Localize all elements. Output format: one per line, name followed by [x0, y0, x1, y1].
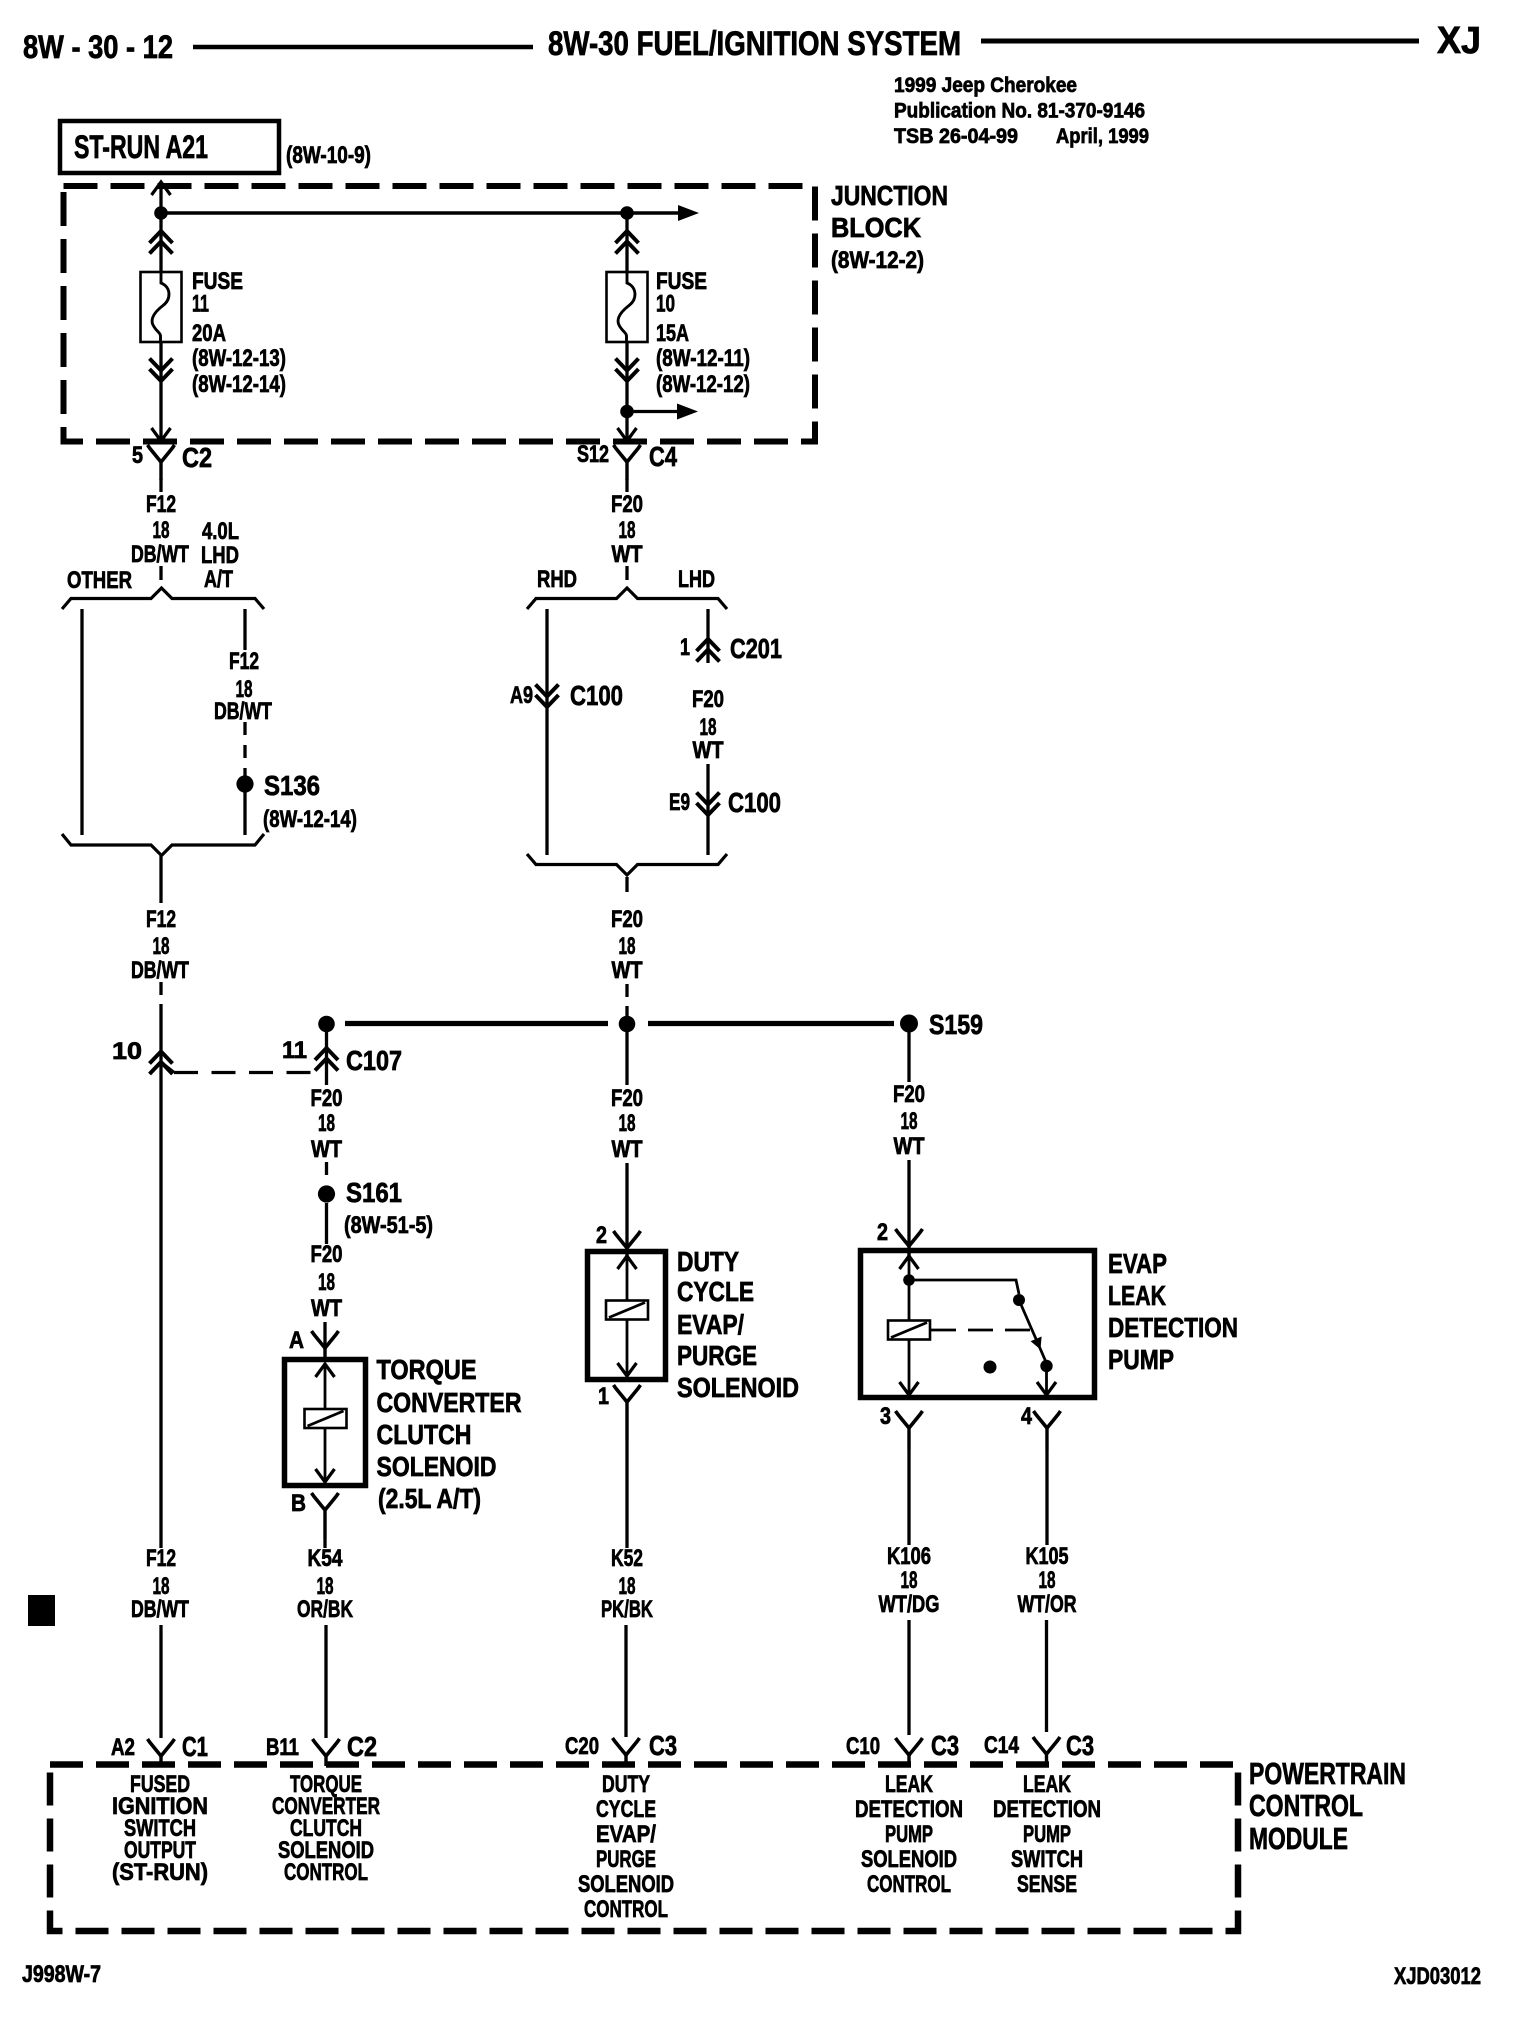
svg-text:OTHER: OTHER	[67, 567, 132, 594]
label: EVAP LEAK DETECTION PUMP	[1108, 1248, 1238, 1375]
merge brace: RHD/LHD rejoin to F20	[527, 854, 727, 875]
svg-text:K105: K105	[1026, 1543, 1069, 1570]
label: LEAK DETECTION PUMP SWITCH SENSE	[993, 1771, 1101, 1898]
wire: TCC pin B down (circuit K54)	[323, 1539, 326, 1548]
pin A9 connector C100 on RHD branch	[510, 682, 559, 709]
label: FUSE 10 15A (8W-12-11) (8W-12-12)	[656, 268, 750, 398]
svg-text:18: 18	[901, 1108, 918, 1135]
svg-text:CONTROL: CONTROL	[284, 1859, 368, 1886]
splice S161	[318, 1185, 335, 1202]
svg-text:3: 3	[880, 1403, 891, 1430]
pin 1 connector C201 on LHD branch	[680, 634, 720, 662]
wire: S159 down to leak detection pump pin 2	[907, 1032, 910, 1082]
svg-text:EVAP: EVAP	[1108, 1248, 1167, 1279]
label: splice S136 (8W-12-14)	[263, 770, 357, 833]
pin 3 of EVAP leak detection pump	[880, 1403, 923, 1450]
svg-text:(8W-10-9): (8W-10-9)	[286, 142, 371, 169]
svg-text:F20: F20	[692, 686, 724, 713]
label: circuit F20 18 WT (LDP)	[893, 1081, 925, 1160]
svg-text:J998W-7: J998W-7	[22, 1961, 101, 1988]
svg-text:BLOCK: BLOCK	[831, 212, 921, 243]
wire: TCC internal lower (arrow down)	[316, 1428, 335, 1482]
svg-text:18: 18	[901, 1567, 918, 1594]
registration mark	[28, 1595, 55, 1626]
svg-text:F20: F20	[893, 1081, 925, 1108]
svg-text:DUTY: DUTY	[677, 1246, 739, 1277]
label: circuit K106 18 WT/DG	[879, 1543, 940, 1618]
component box: EVAP leak detection pump	[861, 1251, 1095, 1398]
wire: OTHER branch	[80, 609, 83, 835]
svg-text:(8W-12-12): (8W-12-12)	[656, 371, 750, 398]
svg-text:WT: WT	[612, 957, 643, 984]
svg-text:K106: K106	[887, 1543, 931, 1570]
wire: junction block bus to fuse 10	[161, 205, 699, 221]
svg-text:18: 18	[153, 517, 170, 544]
svg-text:CLUTCH: CLUTCH	[377, 1419, 472, 1450]
svg-text:S12: S12	[577, 441, 609, 468]
svg-text:18: 18	[153, 933, 170, 960]
svg-text:WT: WT	[612, 1136, 643, 1163]
label: circuit F20 18 WT (LHD)	[692, 686, 724, 764]
wire: coil down to pin 3 (arrow down)	[900, 1339, 919, 1395]
pin 2 of EVAP leak detection pump	[877, 1219, 923, 1256]
svg-text:C10: C10	[846, 1733, 880, 1760]
label: FUSE 11 20A (8W-12-13) (8W-12-14)	[192, 268, 286, 398]
split brace: F20 splits RHD / LHD	[527, 588, 727, 609]
junction block dashed enclosure	[64, 186, 816, 442]
wire: internal link to switch contact	[909, 1280, 1019, 1294]
svg-text:TSB 26-04-99: TSB 26-04-99	[894, 124, 1018, 148]
wire: fuse 11 feed up to ST-RUN A21 (arrow up)	[152, 182, 171, 213]
wire: K54 to PCM	[324, 1625, 327, 1738]
wire: pin 1 down (circuit K52)	[625, 1440, 628, 1548]
svg-text:10: 10	[112, 1038, 142, 1065]
svg-text:TORQUE: TORQUE	[377, 1354, 477, 1385]
wire: bus node down into fuse 10	[625, 213, 628, 272]
pin 1 of duty cycle solenoid	[598, 1383, 641, 1440]
node: bus end left (C107 drop)	[318, 1016, 335, 1033]
svg-text:POWERTRAIN: POWERTRAIN	[1249, 1756, 1406, 1791]
svg-text:C201: C201	[730, 633, 782, 664]
dashed actuation link from coil to switch	[931, 1329, 1030, 1332]
svg-text:(8W-51-5): (8W-51-5)	[344, 1212, 433, 1239]
svg-text:1999 Jeep Cherokee: 1999 Jeep Cherokee	[894, 73, 1077, 97]
svg-text:11: 11	[192, 291, 209, 318]
svg-text:(8W-12-14): (8W-12-14)	[192, 371, 286, 398]
wire: F20 below merge (dashed)	[625, 877, 628, 900]
svg-text:18: 18	[619, 933, 636, 960]
component box: duty cycle EVAP/purge solenoid	[588, 1252, 666, 1380]
svg-text:CONTROL: CONTROL	[584, 1896, 668, 1923]
svg-text:SOLENOID: SOLENOID	[677, 1372, 799, 1403]
svg-text:WT/OR: WT/OR	[1018, 1591, 1077, 1618]
pin 2 of duty cycle solenoid	[596, 1222, 641, 1258]
svg-text:EVAP/: EVAP/	[596, 1821, 656, 1848]
svg-text:April, 1999: April, 1999	[1056, 124, 1149, 148]
svg-text:C3: C3	[931, 1730, 959, 1761]
svg-text:WT/DG: WT/DG	[879, 1591, 940, 1618]
split brace: F12 splits OTHER / 4.0L LHD A/T	[62, 588, 264, 609]
label: circuit F20 18 WT	[611, 491, 643, 568]
wire: RHD branch	[545, 609, 548, 855]
wire: K106 to PCM	[907, 1620, 910, 1735]
merge brace: branches rejoin to F12	[62, 834, 264, 856]
svg-text:11: 11	[282, 1037, 307, 1064]
svg-text:OR/BK: OR/BK	[297, 1596, 353, 1623]
node: stray contact dot	[984, 1361, 997, 1374]
label: 4.0L LHD A/T branch	[201, 518, 239, 593]
label: splice S161 (8W-51-5)	[344, 1177, 433, 1239]
wire: TCC internal (arrow up)	[316, 1364, 335, 1409]
wire: S161 down to torque converter clutch solenoid	[325, 1203, 328, 1244]
wire: F20 to splice S159 bus	[625, 984, 628, 1018]
svg-text:ST-RUN A21: ST-RUN A21	[74, 129, 208, 165]
svg-text:F20: F20	[611, 1085, 643, 1112]
svg-text:EVAP/: EVAP/	[677, 1309, 744, 1340]
label: circuit K52 18 PK/BK	[601, 1545, 653, 1623]
svg-text:CYCLE: CYCLE	[677, 1276, 754, 1307]
splice S159 node	[900, 1015, 918, 1033]
svg-text:10: 10	[656, 291, 675, 318]
svg-text:18: 18	[619, 1110, 636, 1137]
svg-text:B11: B11	[266, 1734, 299, 1761]
svg-text:B: B	[291, 1490, 306, 1517]
node: bus tap above fuse 10	[620, 206, 634, 220]
label: circuit K54 18 OR/BK	[297, 1545, 353, 1623]
svg-text:8W-30 FUEL/IGNITION SYSTEM: 8W-30 FUEL/IGNITION SYSTEM	[548, 25, 961, 63]
label: circuit K105 18 WT/OR	[1018, 1543, 1077, 1618]
wire: pin 4 down (circuit K105)	[1045, 1450, 1048, 1545]
node: bus middle (duty cycle drop)	[619, 1016, 636, 1033]
powertrain control module dashed enclosure	[50, 1765, 1238, 1932]
svg-text:F12: F12	[146, 1545, 176, 1572]
svg-text:C4: C4	[649, 441, 677, 472]
wire: bus down to C107	[325, 1028, 328, 1085]
pin B of TCC solenoid	[291, 1490, 339, 1539]
wire: bus node down into fuse 11	[159, 213, 162, 272]
node: splice at fuse 11 feed	[154, 206, 168, 220]
svg-text:JUNCTION: JUNCTION	[831, 180, 948, 211]
wire: branch arrow right inside junction block	[627, 404, 698, 420]
svg-text:F20: F20	[311, 1241, 343, 1268]
node: switch lower contact	[1040, 1360, 1052, 1372]
svg-text:DETECTION: DETECTION	[855, 1796, 963, 1823]
fuse F11	[141, 272, 182, 342]
svg-text:2: 2	[877, 1219, 888, 1246]
svg-text:CONTROL: CONTROL	[867, 1871, 951, 1898]
svg-text:C20: C20	[565, 1733, 599, 1760]
svg-text:(ST-RUN): (ST-RUN)	[112, 1859, 208, 1886]
label: circuit F12 18 DB/WT (to PCM)	[131, 1545, 189, 1623]
svg-text:F20: F20	[611, 491, 643, 518]
svg-text:DB/WT: DB/WT	[131, 1596, 189, 1623]
svg-text:K54: K54	[308, 1545, 344, 1572]
svg-text:1: 1	[680, 634, 690, 661]
svg-text:DB/WT: DB/WT	[131, 541, 189, 568]
svg-text:A9: A9	[510, 682, 533, 709]
svg-text:C1: C1	[182, 1731, 208, 1762]
svg-text:C3: C3	[649, 1730, 677, 1761]
label: circuit F20 18 WT (C107)	[311, 1085, 343, 1163]
svg-text:F20: F20	[611, 906, 643, 933]
svg-text:F12: F12	[146, 491, 176, 518]
svg-text:WT: WT	[311, 1295, 342, 1322]
solenoid coil symbol (pump)	[888, 1321, 930, 1340]
wire: down to pin 2	[625, 1163, 628, 1248]
svg-text:SOLENOID: SOLENOID	[377, 1451, 497, 1482]
header rule left	[193, 45, 533, 50]
svg-text:SENSE: SENSE	[1017, 1871, 1077, 1898]
wire: F12 main run below merge	[159, 855, 162, 903]
svg-text:C100: C100	[728, 787, 781, 818]
svg-text:(8W-12-14): (8W-12-14)	[263, 806, 357, 833]
wire: 4.0L branch lower	[243, 722, 246, 835]
svg-text:PK/BK: PK/BK	[601, 1596, 653, 1623]
svg-text:DETECTION: DETECTION	[1108, 1312, 1238, 1343]
pin E9 connector C100 on LHD branch	[669, 789, 720, 816]
wire: pump internal feed (arrow up)	[900, 1256, 919, 1321]
svg-text:F20: F20	[311, 1085, 343, 1112]
svg-text:SOLENOID: SOLENOID	[861, 1846, 957, 1873]
connector C2 symbol	[148, 445, 175, 480]
label: DUTY CYCLE EVAP/PURGE SOLENOID CONTROL	[578, 1771, 674, 1923]
svg-text:A/T: A/T	[204, 566, 233, 593]
connector C1 pin A2 (PCM)	[111, 1734, 175, 1766]
connector C3 pin C10 (PCM)	[846, 1733, 923, 1765]
connector chevrons above fuse 10	[616, 231, 639, 254]
connector C4 symbol	[614, 445, 641, 480]
svg-text:2: 2	[596, 1222, 607, 1249]
svg-text:(8W-12-11): (8W-12-11)	[656, 345, 750, 372]
label: TORQUE CONVERTER CLUTCH SOLENOID CONTROL	[272, 1771, 380, 1886]
svg-text:18: 18	[619, 517, 636, 544]
node: branch below fuse 10	[620, 405, 634, 419]
wire: dashed tie from pin 10 to pin 11 of C107	[162, 1063, 311, 1073]
wire: into TCC solenoid pin A	[323, 1322, 326, 1348]
wire: fuse 10 down to junction block edge (pin S12)	[618, 342, 637, 441]
svg-text:WT: WT	[612, 541, 643, 568]
splice S136	[236, 775, 253, 792]
svg-text:C14: C14	[984, 1732, 1020, 1759]
wire: K105 to PCM	[1045, 1620, 1048, 1732]
svg-text:F12: F12	[146, 906, 176, 933]
svg-text:CYCLE: CYCLE	[596, 1796, 656, 1823]
svg-text:PURGE: PURGE	[677, 1340, 757, 1371]
label: circuit F20 18 WT (main)	[611, 906, 643, 984]
svg-text:PUMP: PUMP	[1108, 1344, 1174, 1375]
wire: bus down to duty cycle solenoid pin 2	[625, 1031, 628, 1085]
svg-text:PUMP: PUMP	[1023, 1821, 1071, 1848]
svg-text:CONVERTER: CONVERTER	[377, 1387, 522, 1418]
connector box ST-RUN A21	[60, 121, 279, 173]
wire: fuse 11 to junction block edge (pin 5)	[152, 342, 171, 441]
header rule right	[981, 39, 1419, 44]
svg-text:(8W-12-13): (8W-12-13)	[192, 345, 286, 372]
svg-text:C3: C3	[1066, 1730, 1094, 1761]
pin 11 connector C107	[282, 1037, 338, 1071]
svg-text:K52: K52	[611, 1545, 643, 1572]
svg-text:RHD: RHD	[537, 566, 577, 593]
wire F12 below C2 (dashed)	[159, 479, 162, 586]
switch blade with arrow	[1019, 1300, 1046, 1362]
svg-text:E9: E9	[669, 789, 690, 816]
label: TORQUE CONVERTER CLUTCH SOLENOID (2.5L A/T)	[377, 1354, 522, 1514]
svg-text:C2: C2	[347, 1731, 377, 1762]
svg-text:PURGE: PURGE	[596, 1846, 656, 1873]
wire: F12 to PCM (A2)	[159, 1625, 162, 1738]
svg-text:F12: F12	[229, 648, 259, 675]
splice bus S159	[345, 1021, 894, 1026]
wire: pin 3 down (circuit K106)	[907, 1450, 910, 1545]
svg-text:DETECTION: DETECTION	[993, 1796, 1101, 1823]
svg-text:C100: C100	[570, 680, 623, 711]
svg-text:LEAK: LEAK	[885, 1771, 933, 1798]
svg-text:SWITCH: SWITCH	[1011, 1846, 1083, 1873]
wire: LHD branch upper	[706, 609, 709, 663]
svg-text:(8W-12-2): (8W-12-2)	[831, 247, 924, 274]
label: circuit F12 18 DB/WT (main)	[131, 906, 189, 984]
connector chevrons below fuse 10	[616, 359, 639, 382]
svg-text:DB/WT: DB/WT	[131, 957, 189, 984]
svg-text:LHD: LHD	[201, 542, 239, 569]
svg-text:WT: WT	[311, 1136, 342, 1163]
wire: short dashed to splice S161	[325, 1162, 328, 1180]
svg-text:(2.5L A/T): (2.5L A/T)	[378, 1483, 481, 1514]
svg-text:S136: S136	[264, 770, 320, 801]
svg-text:A2: A2	[111, 1734, 135, 1761]
node: pump internal junction	[903, 1274, 915, 1286]
fuse F10	[607, 272, 648, 342]
wire: K52 to PCM	[624, 1625, 627, 1737]
svg-text:C107: C107	[346, 1045, 402, 1076]
node: switch pivot contact	[1013, 1294, 1025, 1306]
wire: duty cycle internal (arrow up)	[618, 1256, 637, 1301]
svg-text:1: 1	[598, 1383, 609, 1410]
svg-text:4.0L: 4.0L	[202, 518, 239, 545]
svg-text:XJ: XJ	[1437, 20, 1481, 62]
svg-text:C2: C2	[182, 442, 212, 473]
pin A of TCC solenoid	[289, 1327, 339, 1360]
svg-text:S161: S161	[346, 1177, 402, 1208]
svg-text:A: A	[289, 1327, 304, 1354]
component box: torque converter clutch solenoid	[285, 1360, 366, 1486]
label: DUTY CYCLE EVAP/PURGE SOLENOID	[677, 1246, 799, 1403]
publication note	[894, 73, 1149, 148]
svg-text:WT: WT	[693, 737, 724, 764]
svg-text:DB/WT: DB/WT	[214, 698, 272, 725]
svg-text:4: 4	[1021, 1403, 1033, 1430]
svg-text:S159: S159	[929, 1009, 983, 1040]
wire: F12 long run to PCM	[159, 982, 162, 1548]
connector C3 pin C14 (PCM)	[984, 1732, 1060, 1764]
label: circuit F20 18 WT (duty cycle)	[611, 1085, 643, 1163]
label: POWERTRAIN CONTROL MODULE	[1249, 1756, 1406, 1856]
svg-text:20A: 20A	[192, 320, 226, 347]
svg-text:MODULE: MODULE	[1249, 1821, 1348, 1856]
svg-text:SOLENOID: SOLENOID	[578, 1871, 674, 1898]
svg-text:DUTY: DUTY	[602, 1771, 650, 1798]
connector C3 pin C20 (PCM)	[565, 1733, 640, 1765]
label: circuit F12 18 DB/WT (branch)	[214, 648, 272, 725]
svg-text:LEAK: LEAK	[1108, 1280, 1166, 1311]
connector chevrons above fuse 11	[150, 231, 173, 254]
svg-text:PUMP: PUMP	[885, 1821, 933, 1848]
wire: switch contact down to pin 4 (arrow down)	[1037, 1371, 1056, 1395]
label: LEAK DETECTION PUMP SOLENOID CONTROL	[855, 1771, 963, 1898]
connector chevrons below fuse 11	[150, 359, 173, 382]
svg-text:WT: WT	[894, 1133, 925, 1160]
solenoid coil symbol (duty cycle)	[606, 1301, 648, 1320]
junction block label	[831, 180, 948, 274]
svg-text:18: 18	[1039, 1567, 1056, 1594]
pin 10 chevrons on F12 run (C107)	[112, 1038, 173, 1074]
svg-text:LEAK: LEAK	[1023, 1771, 1071, 1798]
label: circuit F20 18 WT (TCC)	[311, 1241, 343, 1322]
svg-text:5: 5	[132, 442, 143, 469]
solenoid coil symbol (TCC)	[305, 1409, 347, 1428]
wire: 4.0L branch upper	[243, 609, 246, 650]
label: FUSED IGNITION SWITCH OUTPUT (ST-RUN)	[112, 1771, 208, 1886]
wire: LHD branch lower	[706, 764, 709, 855]
svg-text:15A: 15A	[656, 320, 689, 347]
wire F20 below C4 (dashed)	[625, 479, 628, 588]
wire: duty cycle internal lower (arrow down)	[618, 1319, 637, 1376]
svg-text:18: 18	[318, 1269, 335, 1296]
svg-text:CONTROL: CONTROL	[1249, 1788, 1363, 1823]
svg-text:8W - 30 - 12: 8W - 30 - 12	[23, 29, 173, 65]
pin 4 of EVAP leak detection pump	[1021, 1403, 1061, 1450]
svg-text:18: 18	[318, 1110, 335, 1137]
svg-text:XJD03012: XJD03012	[1394, 1963, 1481, 1990]
svg-text:Publication No. 81-370-9146: Publication No. 81-370-9146	[894, 99, 1145, 123]
connector C2 pin B11 (PCM)	[266, 1734, 340, 1766]
label: circuit F12 18 DB/WT	[131, 491, 189, 568]
wire: down to pin 2 of pump	[907, 1160, 910, 1246]
svg-text:LHD: LHD	[678, 566, 715, 593]
